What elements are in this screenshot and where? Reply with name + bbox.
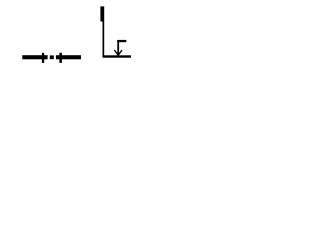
arrowhead left wing <box>114 50 118 56</box>
wire (right thick conductor segment) <box>56 55 81 59</box>
tick mark 2 (cross stroke on right conductor) <box>59 53 62 63</box>
dashed link (middle dash) <box>50 55 54 59</box>
arrow shaft <box>117 40 119 55</box>
arrowhead right wing <box>118 50 122 56</box>
busbar (bottom horizontal line) <box>103 55 132 57</box>
wire (left thick conductor segment) <box>22 55 47 59</box>
terminal stub (thick top tick of vertical conductor) <box>100 6 104 21</box>
wire (vertical conductor) <box>103 21 105 57</box>
tick mark 1 (cross stroke on left conductor) <box>42 53 44 63</box>
arrow top bar (horizontal stroke of direction symbol) <box>117 40 126 42</box>
